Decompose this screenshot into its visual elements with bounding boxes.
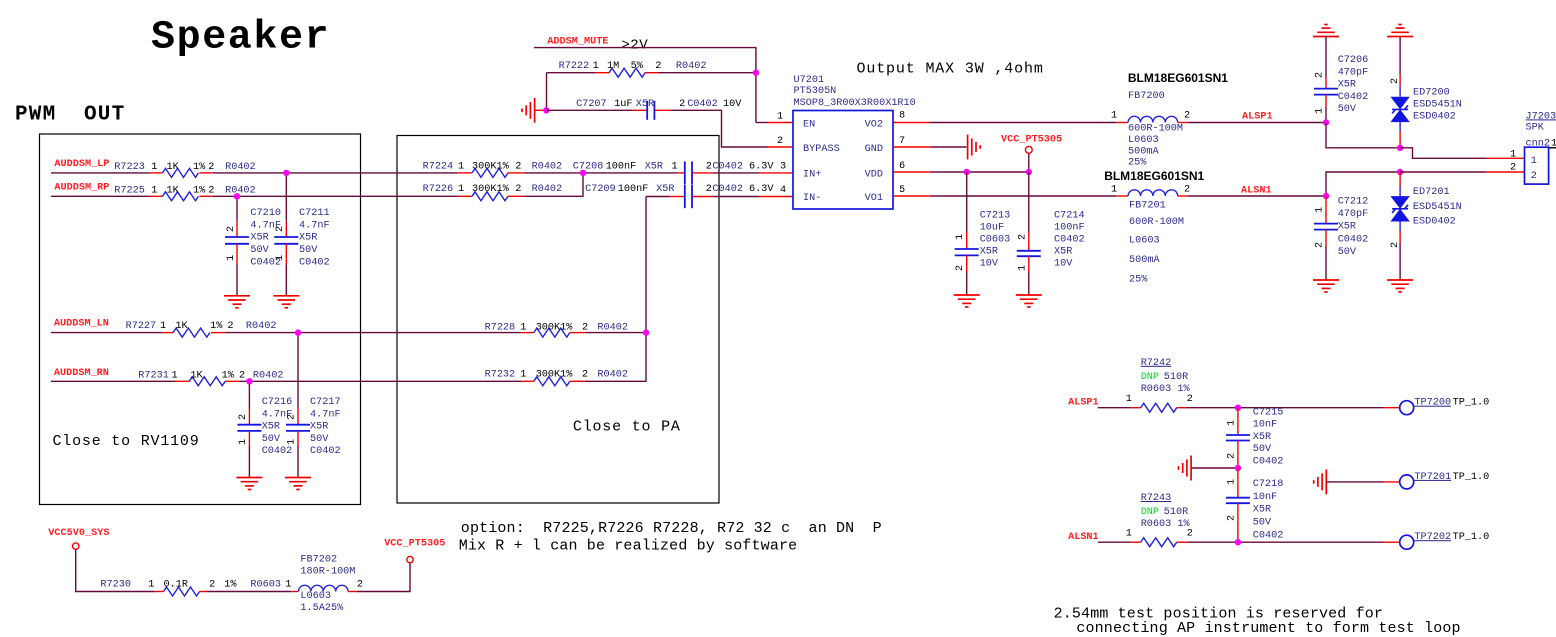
testpoint TP7201 [1400, 472, 1490, 489]
wire LP R7224 to C7208 [523, 172, 677, 174]
svg-text:2: 2 [582, 370, 588, 381]
svg-text:1: 1 [1531, 156, 1537, 167]
svg-text:R7224: R7224 [423, 162, 454, 173]
svg-text:2: 2 [1315, 72, 1326, 78]
resistor R7223 [114, 162, 255, 177]
svg-text:2: 2 [582, 323, 588, 334]
svg-text:connecting AP instrument to fo: connecting AP instrument to form test lo… [1067, 620, 1461, 637]
svg-text:1: 1 [160, 321, 166, 332]
svg-text:R0402: R0402 [532, 184, 563, 195]
capacitor C7215 [1226, 407, 1283, 468]
wire C7216 to ground [248, 446, 250, 478]
wire R7222 down to C7207 [546, 73, 548, 111]
svg-text:ESD0402: ESD0402 [1413, 112, 1456, 123]
svg-text:VO1: VO1 [865, 193, 883, 204]
capacitor C7211 [274, 208, 329, 268]
svg-text:2: 2 [706, 162, 712, 173]
svg-text:option: R7225,R7226 R7228, R7: option: R7225,R7226 R7228, R72 32 c an D… [461, 520, 882, 537]
wire R7243 to TP7202 [1187, 541, 1383, 543]
svg-text:1: 1 [458, 184, 464, 195]
svg-text:1: 1 [287, 439, 298, 445]
junction LP-C7211 [283, 170, 289, 176]
ground TP7201 [1314, 469, 1327, 494]
svg-text:R0402: R0402 [225, 162, 256, 173]
svg-text:C0402: C0402 [1338, 234, 1369, 245]
svg-text:L0603: L0603 [1128, 135, 1159, 146]
svg-text:C7216: C7216 [262, 397, 293, 408]
svg-text:R7230: R7230 [100, 580, 131, 591]
junction ALSP1-ED7200 [1397, 145, 1403, 151]
svg-text:6.3V: 6.3V [749, 162, 774, 173]
svg-text:C7211: C7211 [299, 208, 330, 219]
svg-text:2: 2 [1510, 163, 1516, 174]
wire R7242 to TP7200 [1187, 407, 1383, 409]
svg-text:50V: 50V [1338, 104, 1357, 115]
svg-text:R7225: R7225 [114, 185, 145, 196]
junction R7222-MUTE [753, 70, 759, 76]
svg-text:X5R: X5R [299, 233, 317, 244]
svg-text:X5R: X5R [645, 162, 663, 173]
ground C7211 [273, 296, 299, 308]
svg-text:X5R: X5R [262, 422, 280, 433]
svg-text:C7210: C7210 [250, 208, 281, 219]
svg-text:1: 1 [458, 162, 464, 173]
resistor R7226 [423, 184, 563, 201]
svg-text:C0402: C0402 [310, 446, 341, 457]
svg-text:1%: 1% [193, 185, 206, 196]
svg-text:1: 1 [1226, 479, 1237, 485]
junction ALSP1-C7206 [1323, 119, 1329, 125]
svg-text:U7201: U7201 [794, 75, 825, 86]
svg-text:2: 2 [357, 580, 363, 591]
svg-text:1: 1 [777, 112, 783, 123]
wire VCC5V0 down [76, 549, 155, 591]
svg-text:1: 1 [672, 162, 678, 173]
svg-text:500mA: 500mA [1128, 146, 1159, 157]
svg-text:50V: 50V [1338, 247, 1357, 258]
svg-text:DNP: DNP [1141, 372, 1159, 383]
svg-text:6.3V: 6.3V [749, 184, 774, 195]
svg-text:50V: 50V [299, 245, 318, 256]
ground mid test [1179, 456, 1192, 481]
svg-text:2: 2 [208, 162, 214, 173]
ground ED7201 [1387, 280, 1413, 292]
svg-text:1%: 1% [193, 162, 206, 173]
svg-text:1uF: 1uF [614, 99, 632, 110]
svg-text:EN: EN [803, 120, 815, 131]
wire ALSN1 up right [1326, 172, 1400, 196]
svg-text:VDD: VDD [865, 170, 883, 181]
svg-text:R0402: R0402 [597, 370, 628, 381]
svg-text:C0603: C0603 [980, 234, 1011, 245]
svg-text:AUDDSM_RP: AUDDSM_RP [54, 183, 109, 194]
svg-text:1M: 1M [607, 61, 619, 72]
svg-text:2: 2 [515, 184, 521, 195]
svg-text:1: 1 [1017, 265, 1028, 271]
svg-text:BLM18EG601SN1: BLM18EG601SN1 [1128, 71, 1228, 85]
svg-text:J7203: J7203 [1526, 111, 1556, 122]
svg-text:300K1%: 300K1% [536, 370, 574, 381]
svg-text:100nF: 100nF [618, 184, 649, 195]
capacitor C7207 [546, 99, 742, 120]
svg-text:AUDDSM_LP: AUDDSM_LP [54, 159, 109, 170]
wire gnd to C7206 [1325, 37, 1327, 78]
svg-text:R7223: R7223 [114, 162, 145, 173]
testpoint TP7200 [1400, 398, 1490, 415]
svg-text:ED7201: ED7201 [1413, 187, 1450, 198]
capacitor C7214 [1017, 210, 1085, 272]
svg-text:X5R: X5R [636, 99, 654, 110]
ferrite bead FB7201 [1104, 169, 1204, 286]
svg-text:2: 2 [1226, 453, 1237, 459]
svg-text:2: 2 [287, 414, 298, 420]
svg-text:500mA: 500mA [1129, 255, 1160, 266]
svg-text:Mix R + l can be realized by s: Mix R + l can be realized by software [459, 538, 798, 555]
svg-text:510R: 510R [1164, 372, 1188, 383]
svg-text:1: 1 [151, 185, 157, 196]
svg-text:R0402: R0402 [597, 323, 628, 334]
ground top ED7200 [1387, 25, 1413, 37]
svg-text:X5R: X5R [1338, 222, 1356, 233]
svg-text:cnn2: cnn2 [1526, 138, 1550, 149]
junction R7243-C7218 [1235, 539, 1241, 545]
svg-text:C7213: C7213 [980, 210, 1011, 221]
svg-text:1: 1 [520, 323, 526, 334]
op-amp U7201 [793, 75, 916, 209]
svg-text:R7231: R7231 [138, 371, 169, 382]
svg-text:ALSN1: ALSN1 [1068, 532, 1099, 543]
svg-text:C7207: C7207 [576, 99, 607, 110]
svg-text:R0402: R0402 [246, 321, 277, 332]
svg-text:1: 1 [593, 61, 599, 72]
svg-text:ADDSM_MUTE: ADDSM_MUTE [547, 37, 608, 48]
resistor R7225 [114, 185, 255, 201]
svg-text:AUDDSM_RN: AUDDSM_RN [54, 368, 109, 379]
svg-text:BLM18EG601SN1: BLM18EG601SN1 [1104, 169, 1204, 183]
svg-text:7: 7 [899, 136, 905, 147]
svg-text:2: 2 [515, 162, 521, 173]
svg-text:VO2: VO2 [865, 120, 883, 131]
wire C7216 branch [248, 381, 250, 409]
svg-text:1K: 1K [167, 162, 180, 173]
wire AUDDSM_RN [51, 380, 175, 382]
svg-text:10V: 10V [980, 258, 999, 269]
svg-text:ESD5451N: ESD5451N [1413, 202, 1462, 213]
wire ALSP1 [1188, 122, 1324, 124]
svg-text:1K: 1K [167, 185, 180, 196]
capacitor C7212 [1314, 196, 1368, 258]
svg-text:1: 1 [151, 162, 157, 173]
capacitor C7216 [237, 397, 292, 457]
svg-text:X5R: X5R [656, 184, 674, 195]
svg-text:10V: 10V [1054, 258, 1073, 269]
svg-text:L0603: L0603 [300, 591, 331, 602]
wire C7217 to ground [297, 446, 299, 478]
junction ALSN1-ED7201 [1397, 169, 1403, 175]
svg-text:1K: 1K [190, 371, 203, 382]
svg-text:C0402: C0402 [687, 99, 718, 110]
wire GND pin7 [893, 146, 931, 148]
wire C7211 to ground [285, 265, 287, 296]
svg-text:Speaker: Speaker [151, 16, 330, 61]
svg-text:1: 1 [1315, 207, 1326, 213]
svg-text:X5R: X5R [310, 422, 328, 433]
svg-text:C0402: C0402 [1253, 456, 1284, 467]
svg-text:Close to RV1109: Close to RV1109 [53, 433, 200, 450]
wire C7206 to ALSP1 [1325, 107, 1327, 123]
svg-text:C0402: C0402 [1338, 92, 1369, 103]
svg-text:R7242: R7242 [1141, 358, 1172, 369]
ground C7212 [1313, 280, 1339, 292]
svg-text:AUDDSM_LN: AUDDSM_LN [54, 318, 109, 329]
svg-text:C0402: C0402 [712, 162, 743, 173]
wire VO2 pin8 [893, 122, 931, 124]
resistor R7227 [126, 321, 277, 337]
svg-text:2: 2 [777, 136, 783, 147]
wire VDD pin6 [893, 171, 931, 173]
svg-text:470pF: 470pF [1338, 209, 1369, 220]
svg-text:510R: 510R [1164, 507, 1188, 518]
svg-text:X5R: X5R [1253, 432, 1271, 443]
wire AUDDSM_LN [51, 332, 162, 334]
testpoint TP7202 [1400, 532, 1490, 549]
wire EN to pin1 [756, 122, 768, 124]
svg-text:2: 2 [209, 580, 215, 591]
svg-text:C0402: C0402 [1253, 531, 1284, 542]
svg-text:1: 1 [955, 234, 966, 240]
transistor ED7200 tvs [1390, 74, 1462, 148]
svg-text:2: 2 [1531, 171, 1537, 182]
junction VDD-C7214 [1026, 169, 1032, 175]
ferrite bead FB7202 [285, 554, 363, 614]
wire VCC to VDD [1028, 153, 1030, 172]
ground C7216 [236, 478, 262, 490]
svg-text:X5R: X5R [250, 233, 268, 244]
svg-text:2: 2 [955, 265, 966, 271]
svg-text:Output MAX 3W ,4ohm: Output MAX 3W ,4ohm [857, 61, 1044, 78]
resistor R7222 [547, 61, 756, 77]
svg-text:300K1%: 300K1% [472, 184, 510, 195]
wire gnd to junction [535, 109, 547, 111]
svg-text:2: 2 [227, 321, 233, 332]
svg-text:1: 1 [285, 580, 291, 591]
wire gnd to mid junction [1191, 467, 1238, 469]
svg-text:5: 5 [899, 185, 905, 196]
ground C7213 [954, 295, 980, 307]
svg-text:50V: 50V [250, 245, 269, 256]
svg-text:BYPASS: BYPASS [803, 144, 840, 155]
wire ALSP1 to J7203 pin1 [1400, 148, 1486, 159]
svg-text:180R-100M: 180R-100M [300, 567, 355, 578]
svg-text:ALSP1: ALSP1 [1068, 397, 1099, 408]
wire VO1 pin5 [893, 195, 931, 197]
capacitor C7217 [286, 397, 341, 457]
wire C7212 to ground [1325, 246, 1327, 280]
svg-text:8: 8 [899, 111, 905, 122]
svg-text:SPK: SPK [1526, 123, 1545, 134]
svg-text:1: 1 [1111, 185, 1117, 196]
svg-text:1: 1 [172, 371, 178, 382]
svg-text:C7214: C7214 [1054, 210, 1085, 221]
svg-text:R0603 1%: R0603 1% [1141, 519, 1191, 530]
svg-text:ED7200: ED7200 [1413, 88, 1450, 99]
svg-text:X5R: X5R [1253, 505, 1271, 516]
svg-text:1: 1 [1126, 394, 1132, 405]
junction R7242-C7215 [1235, 405, 1241, 411]
svg-text:R7227: R7227 [126, 321, 157, 332]
svg-text:2: 2 [238, 414, 249, 420]
svg-text:1: 1 [1510, 150, 1516, 161]
resistor R7242 [1126, 358, 1193, 412]
svg-text:TP_1.0: TP_1.0 [1453, 398, 1490, 409]
wire gnd to TP7201 [1326, 481, 1383, 483]
ground C7217 [285, 478, 311, 490]
svg-text:C7212: C7212 [1338, 197, 1369, 208]
svg-text:1.5A25%: 1.5A25% [300, 603, 344, 614]
junction C7208-R7226 [580, 170, 586, 176]
svg-text:VCC_PT5305: VCC_PT5305 [1001, 135, 1062, 146]
wire FB7202 to VCC_PT5305 [357, 563, 410, 592]
svg-text:R0402: R0402 [253, 371, 284, 382]
svg-text:10V: 10V [723, 99, 742, 110]
svg-text:10nF: 10nF [1253, 492, 1277, 503]
svg-text:1: 1 [1226, 420, 1237, 426]
capacitor C7210 [225, 208, 281, 268]
svg-text:1%: 1% [210, 321, 223, 332]
svg-text:R0603: R0603 [250, 580, 281, 591]
junction VDD-C7213 [964, 169, 970, 175]
svg-text:C7218: C7218 [1253, 479, 1284, 490]
wire R7228 to join [585, 332, 646, 334]
svg-text:2: 2 [1226, 515, 1237, 521]
wire C7210 to ground [236, 265, 238, 296]
svg-text:5%: 5% [631, 61, 644, 72]
resistor R7232 [485, 370, 628, 386]
svg-text:C0402: C0402 [712, 184, 743, 195]
svg-text:IN-: IN- [803, 193, 821, 204]
wire C7207 to pin2 [671, 110, 768, 147]
svg-text:4.7nF: 4.7nF [299, 220, 330, 231]
svg-text:ESD0402: ESD0402 [1413, 217, 1456, 228]
wire C7214 branch [1028, 172, 1030, 232]
svg-text:R0402: R0402 [532, 162, 563, 173]
svg-text:1: 1 [148, 580, 154, 591]
svg-text:PWM OUT: PWM OUT [15, 104, 125, 127]
svg-text:TP_1.0: TP_1.0 [1453, 532, 1490, 543]
svg-text:10uF: 10uF [980, 222, 1004, 233]
svg-text:1K: 1K [175, 321, 188, 332]
svg-text:X5R: X5R [1054, 246, 1072, 257]
svg-text:3: 3 [780, 162, 786, 173]
svg-text:100nF: 100nF [1054, 222, 1085, 233]
svg-text:25%: 25% [1128, 157, 1147, 168]
box Close to PA [397, 136, 719, 504]
svg-text:C0402: C0402 [299, 257, 330, 268]
svg-text:Close to PA: Close to PA [573, 419, 681, 436]
svg-text:1: 1 [238, 439, 249, 445]
wire AUDDSM_LP [51, 172, 150, 174]
svg-text:1: 1 [1111, 111, 1117, 122]
svg-text:1%: 1% [222, 371, 235, 382]
wire ALSP1 down right [1326, 123, 1400, 148]
svg-text:25%: 25% [1129, 275, 1148, 286]
svg-text:4: 4 [780, 185, 786, 196]
svg-text:2: 2 [1184, 185, 1190, 196]
wire AUDDSM_RP [51, 195, 150, 197]
svg-text:50V: 50V [262, 434, 281, 445]
wire C7214 to ground [1028, 272, 1030, 295]
wire gnd to ED7200 [1399, 37, 1401, 75]
svg-text:TP_1.0: TP_1.0 [1453, 472, 1490, 483]
transistor ED7201 tvs [1390, 172, 1462, 248]
junction C7207-gnd [543, 107, 549, 113]
wire C7217 branch [297, 333, 299, 409]
resistor R7224 [423, 162, 563, 178]
svg-text:X5R: X5R [980, 246, 998, 257]
junction C7215-C7218 [1235, 465, 1241, 471]
wire R7226 up to LP [523, 173, 583, 196]
svg-text:R7232: R7232 [485, 370, 516, 381]
resistor R7230 [100, 580, 281, 596]
wire ALSP1 test in [1098, 407, 1131, 409]
resistor R7228 [485, 323, 628, 338]
wire ALSN1 [1188, 195, 1326, 197]
svg-text:R7222: R7222 [559, 61, 590, 72]
svg-text:1: 1 [520, 370, 526, 381]
junction LN-C7217 [295, 329, 301, 335]
svg-text:4.7nF: 4.7nF [310, 409, 341, 420]
svg-text:C7209: C7209 [585, 184, 616, 195]
ground C7210 [224, 296, 250, 308]
svg-text:50V: 50V [1253, 444, 1272, 455]
ground C7207 [522, 98, 535, 123]
svg-text:C7208: C7208 [573, 162, 604, 173]
resistor R7243 [1126, 493, 1193, 547]
svg-text:C7215: C7215 [1253, 407, 1284, 418]
svg-text:R0402: R0402 [225, 185, 256, 196]
svg-text:C7206: C7206 [1338, 55, 1369, 66]
svg-text:2: 2 [275, 226, 286, 232]
svg-text:L0603: L0603 [1129, 235, 1160, 246]
svg-text:C7217: C7217 [310, 397, 341, 408]
wire C7208 to pin3 [713, 172, 759, 174]
svg-text:TP7202: TP7202 [1414, 532, 1451, 543]
svg-text:1%: 1% [224, 580, 237, 591]
svg-text:1: 1 [226, 255, 237, 261]
svg-text:2: 2 [1184, 111, 1190, 122]
resistor R7231 [138, 371, 283, 386]
svg-text:VCC5V0_SYS: VCC5V0_SYS [48, 528, 109, 539]
wire black stub [1549, 147, 1556, 149]
svg-text:R7226: R7226 [423, 184, 454, 195]
svg-text:2: 2 [1017, 234, 1028, 240]
svg-text:ALSN1: ALSN1 [1241, 186, 1272, 197]
svg-text:MSOP8_3R00X3R00X1R10: MSOP8_3R00X3R00X1R10 [794, 98, 916, 109]
svg-text:2: 2 [1187, 394, 1193, 405]
capacitor C7218 [1226, 468, 1283, 542]
svg-text:2: 2 [706, 184, 712, 195]
wire R7230 to FB7202 [207, 591, 292, 593]
svg-text:R7243: R7243 [1141, 493, 1172, 504]
svg-text:2: 2 [208, 185, 214, 196]
svg-text:600R-100M: 600R-100M [1129, 217, 1184, 228]
wire mix join vertical [585, 197, 646, 382]
svg-text:TP7200: TP7200 [1414, 398, 1451, 409]
wire C7210 branch [236, 196, 238, 221]
svg-text:IN+: IN+ [803, 170, 821, 181]
svg-text:2: 2 [1390, 78, 1401, 84]
svg-text:0.1R: 0.1R [164, 580, 188, 591]
